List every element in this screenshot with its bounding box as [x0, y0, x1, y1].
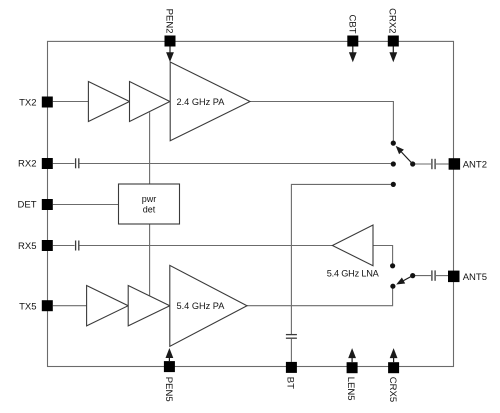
- wire buffer to pwr det: [149, 112, 151, 184]
- arrow CRX5 control input: [390, 348, 398, 362]
- wire RX2 capacitor to ANT2 switch: [80, 163, 391, 165]
- arrow CBT control input: [349, 47, 357, 63]
- arrow PEN5 enable into PA: [166, 348, 174, 361]
- switch SW1 lower throw node (to BT): [391, 182, 396, 187]
- pwr det block: [119, 184, 180, 224]
- arrow CRX2 control input: [389, 47, 397, 63]
- svg-text:LEN5: LEN5: [345, 377, 356, 401]
- svg-text:TX5: TX5: [19, 301, 36, 312]
- svg-text:CBT: CBT: [346, 15, 357, 34]
- pin TX5: [19, 300, 53, 312]
- wire TX2 to buffer chain: [53, 101, 89, 103]
- svg-text:PEN5: PEN5: [163, 377, 174, 402]
- svg-text:pwr: pwr: [142, 194, 157, 204]
- capacitor ANT5 series: [432, 270, 435, 280]
- op-amp 5.4 GHz PA: [170, 265, 247, 346]
- amplifier buffer A1 2.4 GHz: [88, 82, 129, 122]
- pin TX2: [19, 97, 53, 109]
- wire 5.4 GHz PA output to switch: [247, 288, 393, 305]
- switch SW1 throw node (RX2): [391, 161, 396, 166]
- amplifier buffer A2 2.4 GHz: [130, 82, 170, 122]
- amplifier buffer A3 5.4 GHz: [87, 286, 129, 326]
- pin DET: [18, 199, 53, 210]
- op-amp 5.4 GHz LNA: [327, 225, 380, 278]
- pin ANT5: [448, 271, 487, 284]
- wire ANT2 capacitor to ANT2 pin: [436, 163, 449, 165]
- wire ANT2 switch common to capacitor: [415, 163, 432, 165]
- svg-text:ANT5: ANT5: [463, 272, 487, 283]
- op-amp 2.4 GHz PA: [170, 62, 250, 141]
- wire ANT5 capacitor to ANT5 pin: [436, 275, 449, 277]
- capacitor ANT2 series: [432, 159, 435, 169]
- chip outline box: [48, 41, 454, 366]
- svg-text:CRX2: CRX2: [386, 8, 397, 33]
- svg-text:det: det: [143, 204, 156, 214]
- pin CRX2: [386, 8, 398, 46]
- wire DET pin to pwr det box: [53, 204, 119, 206]
- svg-text:RX5: RX5: [18, 241, 36, 252]
- wire BT capacitor to BT pin: [290, 339, 292, 362]
- capacitor BT shunt: [286, 335, 297, 339]
- svg-text:ANT2: ANT2: [463, 159, 487, 170]
- pin BT: [285, 362, 297, 389]
- switch SW2 blade: [396, 276, 413, 285]
- pin RX2: [18, 158, 53, 169]
- switch SW2 throw node (5.4 GHz PA): [390, 284, 395, 289]
- switch SW1 pole node: [410, 161, 415, 166]
- svg-text:5.4 GHz PA: 5.4 GHz PA: [177, 301, 226, 311]
- capacitor RX2 series: [76, 158, 79, 168]
- wire ANT2 switch to BT capacitor: [291, 184, 390, 334]
- svg-text:5.4 GHz LNA: 5.4 GHz LNA: [327, 268, 380, 278]
- pin CBT: [346, 15, 358, 47]
- capacitor RX5 series: [76, 241, 79, 251]
- wire LNA input from ANT5 switch: [373, 246, 393, 264]
- wire pwr det to 5.4 buffer: [149, 224, 151, 296]
- svg-text:2.4 GHz PA: 2.4 GHz PA: [177, 97, 226, 107]
- svg-text:RX2: RX2: [18, 158, 36, 169]
- switch SW2 throw node (LNA): [390, 263, 395, 268]
- svg-text:DET: DET: [18, 199, 37, 210]
- switch SW1 blade: [396, 146, 413, 164]
- arrow PEN2 enable into PA: [166, 47, 174, 63]
- wire 2.4 GHz PA output to switch: [250, 102, 393, 141]
- svg-text:PEN2: PEN2: [164, 9, 175, 34]
- wire RX5 pin to capacitor: [53, 245, 75, 247]
- wire TX5 to buffer chain: [53, 305, 87, 307]
- wire RX5 capacitor to LNA output: [80, 245, 333, 247]
- arrow LEN5 control input: [348, 348, 356, 362]
- pin RX5: [18, 240, 53, 252]
- pin ANT2: [449, 158, 487, 170]
- svg-text:TX2: TX2: [19, 97, 36, 108]
- svg-text:BT: BT: [285, 377, 296, 389]
- pin LEN5: [345, 362, 357, 400]
- switch SW1 throw node (2.4 GHz PA): [391, 141, 396, 146]
- switch SW2 pole node: [410, 273, 415, 278]
- svg-text:CRX5: CRX5: [387, 377, 398, 402]
- wire ANT5 switch common to capacitor: [415, 275, 432, 277]
- pin PEN2: [164, 9, 176, 47]
- amplifier buffer A4 5.4 GHz: [128, 286, 170, 326]
- pin PEN5: [163, 361, 175, 402]
- wire RX2 pin to capacitor: [53, 163, 75, 165]
- pin CRX5: [387, 362, 399, 402]
